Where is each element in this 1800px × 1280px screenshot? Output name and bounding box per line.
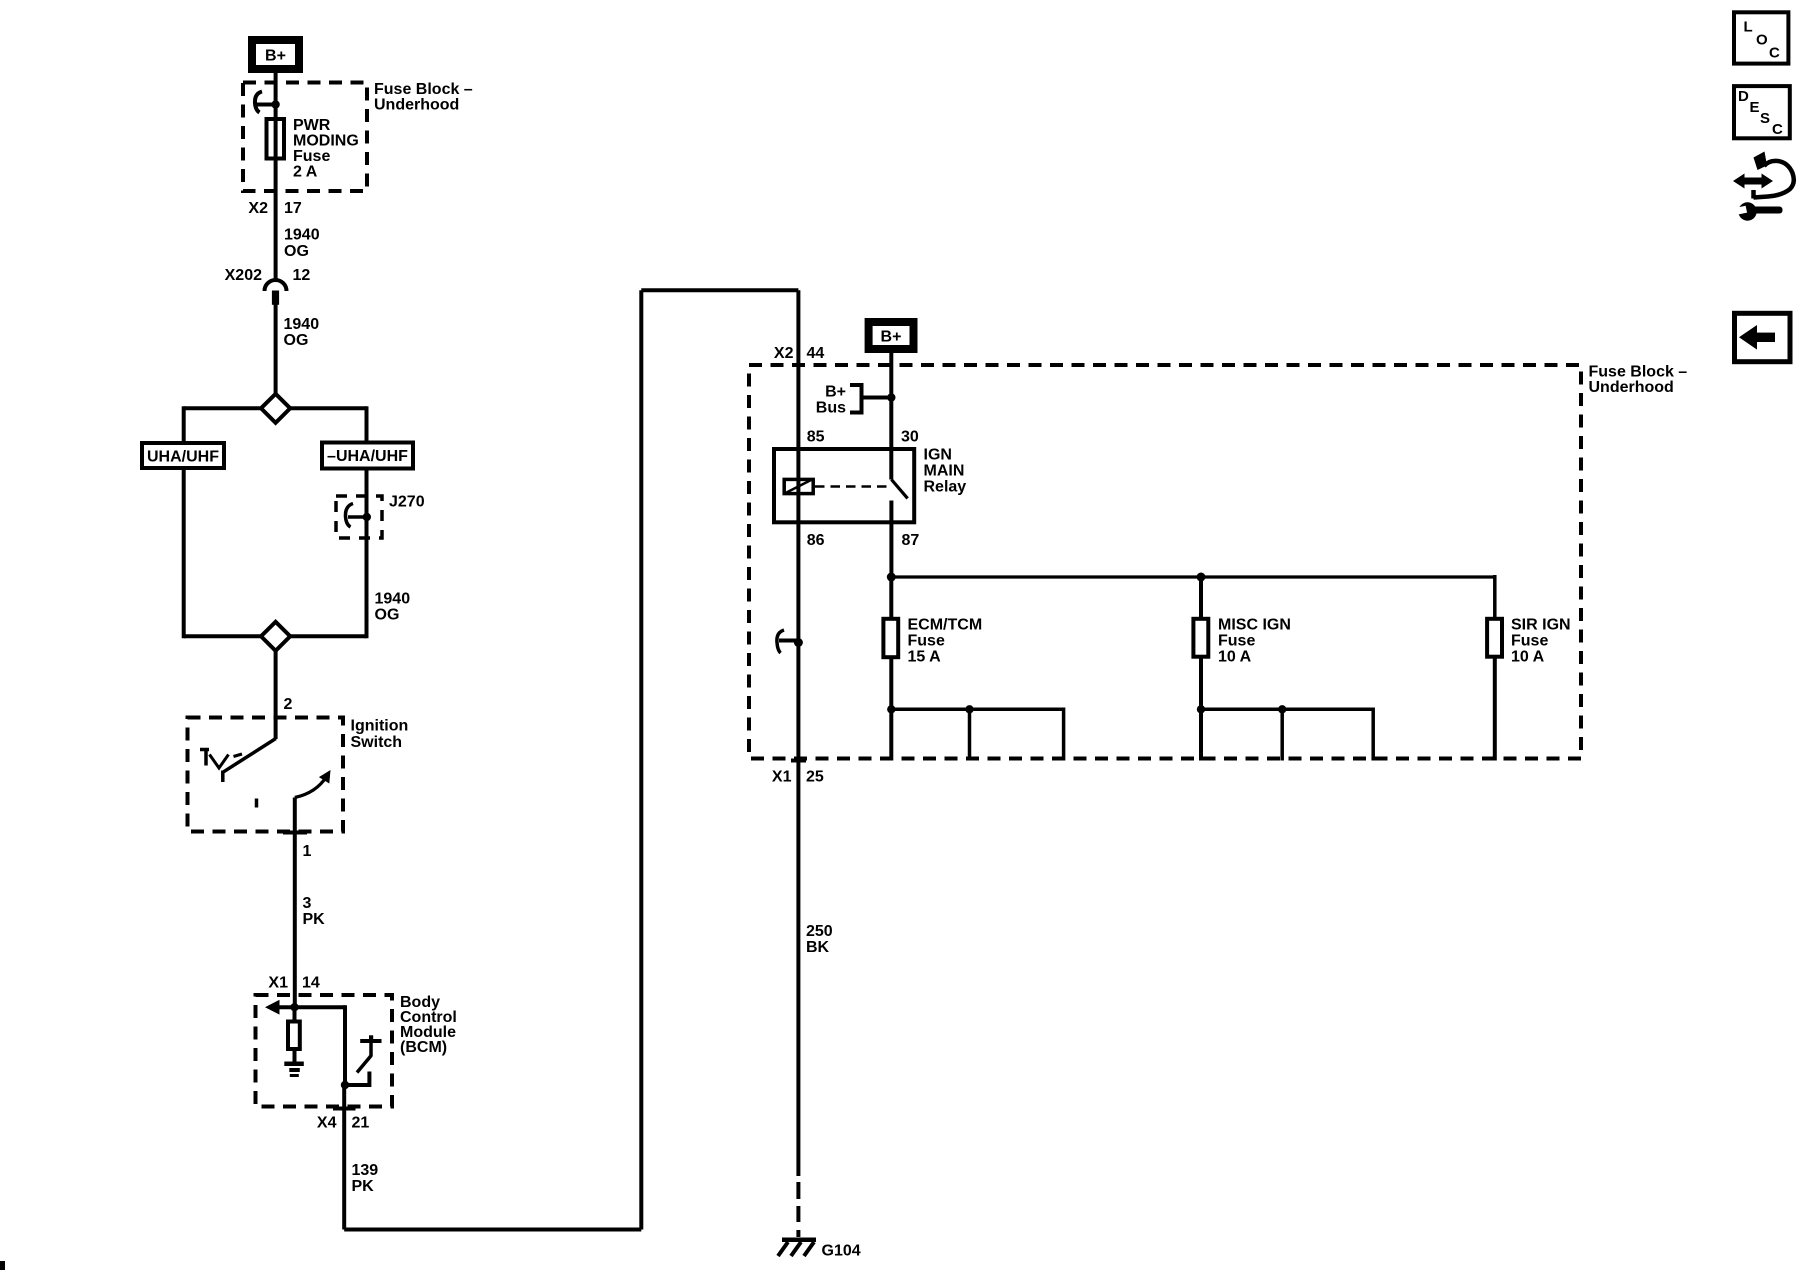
fuse block underhood (left) dashed outline <box>243 83 367 192</box>
-UHA/UHF box <box>322 443 413 469</box>
svg-text:E: E <box>1750 99 1760 116</box>
svg-text:OG: OG <box>375 607 400 624</box>
wire to MISC IGN fuse <box>1199 577 1203 619</box>
svg-text:3: 3 <box>303 895 312 912</box>
svg-text:X1: X1 <box>772 769 792 786</box>
fuse block underhood (right) dashed outline <box>749 365 1581 759</box>
svg-text:17: 17 <box>284 200 302 217</box>
svg-text:X1: X1 <box>268 975 288 992</box>
label wire 250 BK <box>806 923 833 956</box>
svg-text:Underhood: Underhood <box>374 97 459 114</box>
fuse SIR IGN 10 A <box>1487 619 1502 657</box>
svg-text:Ignition: Ignition <box>351 718 409 735</box>
BCM internal ground <box>284 1062 304 1078</box>
label PWR MODING Fuse 2 A <box>293 117 359 181</box>
svg-text:Switch: Switch <box>351 734 403 751</box>
dashed wire segment to G104 <box>796 1182 800 1237</box>
svg-text:44: 44 <box>807 345 825 362</box>
svg-text:–UHA/UHF: –UHA/UHF <box>327 448 408 465</box>
ignition switch wiper arrow <box>295 770 331 798</box>
svg-text:85: 85 <box>807 429 825 446</box>
splice diamond (bottom) <box>261 622 290 651</box>
label 1940 OG (right branch) <box>375 591 411 624</box>
svg-text:B+: B+ <box>825 384 846 401</box>
wire below SIR IGN fuse <box>1493 657 1497 761</box>
svg-text:C: C <box>1772 121 1783 138</box>
svg-text:O: O <box>1756 32 1768 49</box>
pin tick at ignition box border <box>283 831 307 835</box>
svg-text:D: D <box>1738 88 1749 105</box>
svg-text:1940: 1940 <box>284 227 320 244</box>
svg-text:OG: OG <box>284 243 309 260</box>
svg-text:10 A: 10 A <box>1511 649 1545 666</box>
splice J270 symbol <box>345 504 371 528</box>
relay switch contact 30-87 <box>891 480 907 578</box>
ground G104 symbol <box>778 1238 816 1257</box>
svg-text:1: 1 <box>303 843 312 860</box>
wire B+ down to relay pin 30 <box>889 353 893 480</box>
svg-text:139: 139 <box>352 1162 379 1179</box>
svg-text:10 A: 10 A <box>1218 649 1252 666</box>
IGN MAIN relay box <box>774 449 914 522</box>
svg-text:Bus: Bus <box>816 400 846 417</box>
svg-text:X2: X2 <box>248 200 268 217</box>
svg-text:PK: PK <box>352 1178 375 1195</box>
wire diamond to ignition switch, pin 2 <box>274 651 278 739</box>
ignition switch key position marks <box>200 748 257 808</box>
label wire 3 PK <box>303 895 326 928</box>
svg-text:15 A: 15 A <box>908 649 942 666</box>
BCM input arrow <box>265 1000 345 1015</box>
svg-text:14: 14 <box>302 975 320 992</box>
svg-text:MODING: MODING <box>293 133 359 150</box>
wire down to fuse block X2 pin 44 and relay pin 85 <box>796 290 800 1176</box>
wire 139 PK routing: bottom horizontal <box>344 1228 641 1232</box>
wire B+ down into fuse block <box>274 73 278 105</box>
svg-text:X2: X2 <box>774 345 794 362</box>
wire diamond to left branch <box>184 406 261 410</box>
svg-text:1940: 1940 <box>375 591 411 608</box>
svg-text:(BCM): (BCM) <box>400 1039 447 1056</box>
svg-text:Fuse: Fuse <box>908 633 945 650</box>
svg-text:Fuse Block –: Fuse Block – <box>1589 364 1688 381</box>
splice J270 dashed box <box>336 496 382 538</box>
connector X202 pin 12 <box>225 267 311 305</box>
wire below ECM/TCM fuse <box>889 657 893 760</box>
svg-text:S: S <box>1760 110 1770 127</box>
svg-text:X4: X4 <box>317 1115 337 1132</box>
BCM pull-up resistor <box>288 1007 300 1061</box>
fuse PWR MODING 2 A <box>267 119 285 159</box>
svg-text:G104: G104 <box>822 1243 861 1260</box>
svg-text:PK: PK <box>303 911 326 928</box>
relay coil <box>784 479 813 493</box>
wire diamond to right branch <box>290 406 366 410</box>
wire 139 PK routing: top horizontal <box>641 288 798 292</box>
svg-text:Relay: Relay <box>924 479 967 496</box>
pin tick at BCM border <box>333 1107 356 1111</box>
svg-text:ECM/TCM: ECM/TCM <box>908 617 983 634</box>
svg-text:1940: 1940 <box>284 316 320 333</box>
svg-text:250: 250 <box>806 923 833 940</box>
bus tap symbol on 86 wire <box>777 630 803 653</box>
connector X2 pin 17 labels <box>248 200 301 217</box>
svg-text:Fuse: Fuse <box>1511 633 1548 650</box>
connector X2 pin 44 labels <box>774 345 824 362</box>
svg-text:MAIN: MAIN <box>924 463 965 480</box>
icon DESC box <box>1734 86 1790 138</box>
label Ignition Switch <box>351 718 409 752</box>
MISC IGN branch bus <box>1197 705 1373 760</box>
UHA/UHF box <box>142 443 224 468</box>
BCM internal switch <box>341 1005 382 1089</box>
connector X1 pin 14 labels <box>268 975 319 992</box>
label Body Control Module (BCM) <box>400 994 457 1056</box>
svg-text:BK: BK <box>806 939 830 956</box>
svg-text:IGN: IGN <box>924 447 952 464</box>
label wire 139 PK <box>352 1162 379 1195</box>
wire 139 PK routing: long vertical <box>639 290 643 1229</box>
svg-text:B+: B+ <box>265 48 286 65</box>
fuse ECM/TCM 15 A <box>883 619 898 657</box>
connector X4 pin 21 labels <box>317 1115 369 1132</box>
relay pin labels 86 87 <box>807 532 920 549</box>
svg-text:MISC IGN: MISC IGN <box>1218 617 1291 634</box>
wire through fuse <box>274 105 278 194</box>
stray mark bottom left edge <box>0 1261 5 1270</box>
label Fuse Block - Underhood (right) <box>1589 364 1688 397</box>
icon LOC box <box>1734 12 1788 63</box>
svg-text:B+: B+ <box>881 329 902 346</box>
ignition switch blade contact <box>223 739 276 783</box>
svg-text:Underhood: Underhood <box>1589 379 1674 396</box>
wire 1940 OG (below X202) <box>274 305 278 394</box>
bus bar tap symbol (left fuse block) <box>255 92 280 113</box>
splice diamond (top) <box>261 394 290 423</box>
svg-text:SIR IGN: SIR IGN <box>1511 617 1571 634</box>
wire UHA/UHF down to lower splice <box>182 468 186 638</box>
wire to ECM/TCM fuse <box>889 577 893 619</box>
svg-text:L: L <box>1744 19 1753 36</box>
ignition switch dashed box <box>188 718 344 832</box>
svg-text:Fuse Block –: Fuse Block – <box>374 81 473 98</box>
svg-text:J270: J270 <box>389 494 425 511</box>
wire to SIR IGN fuse <box>1493 575 1497 619</box>
label ECM/TCM Fuse 15 A <box>908 617 983 666</box>
wire below MISC IGN fuse <box>1199 657 1203 761</box>
icon diagnostic arrows and wrench <box>1732 152 1793 221</box>
svg-text:Fuse: Fuse <box>293 148 330 165</box>
svg-text:86: 86 <box>807 532 825 549</box>
svg-text:21: 21 <box>352 1115 370 1132</box>
pin tick at fuse block X1 pin 25 <box>791 759 806 763</box>
svg-text:30: 30 <box>901 429 919 446</box>
svg-text:12: 12 <box>293 267 311 284</box>
B+ Bus tap symbol <box>816 383 896 417</box>
wire ignition pin 1 down to BCM <box>293 798 297 1008</box>
label IGN MAIN Relay <box>924 447 967 496</box>
wire BCM X4 pin 21 output <box>342 1085 346 1230</box>
wire 1940 OG (upper) <box>274 193 278 279</box>
label Fuse Block - Underhood (left) <box>374 81 473 114</box>
ignition voltage distribution bus <box>887 573 1495 582</box>
relay pin labels 85 30 <box>807 429 919 446</box>
body control module dashed box <box>256 995 393 1107</box>
power feed B+ box (left) <box>252 40 299 69</box>
svg-text:C: C <box>1769 45 1780 62</box>
svg-text:UHA/UHF: UHA/UHF <box>147 449 219 466</box>
wire -UHA/UHF down through J270 to lower splice <box>365 469 369 639</box>
svg-text:25: 25 <box>806 769 824 786</box>
svg-text:OG: OG <box>284 332 309 349</box>
label SIR IGN Fuse 10 A <box>1511 617 1571 666</box>
svg-text:2: 2 <box>284 696 293 713</box>
svg-text:X202: X202 <box>225 267 262 284</box>
label MISC IGN Fuse 10 A <box>1218 617 1291 666</box>
svg-text:PWR: PWR <box>293 117 331 134</box>
svg-text:87: 87 <box>902 532 920 549</box>
relay armature dashed link <box>815 485 889 488</box>
connector X1 pin 25 labels <box>772 769 824 786</box>
power feed B+ box (right) <box>869 322 914 349</box>
svg-text:2 A: 2 A <box>293 164 318 181</box>
svg-text:Fuse: Fuse <box>1218 633 1255 650</box>
fuse MISC IGN 10 A <box>1193 619 1208 657</box>
icon back arrow box <box>1735 313 1791 361</box>
ECM/TCM branch bus <box>887 705 1064 760</box>
